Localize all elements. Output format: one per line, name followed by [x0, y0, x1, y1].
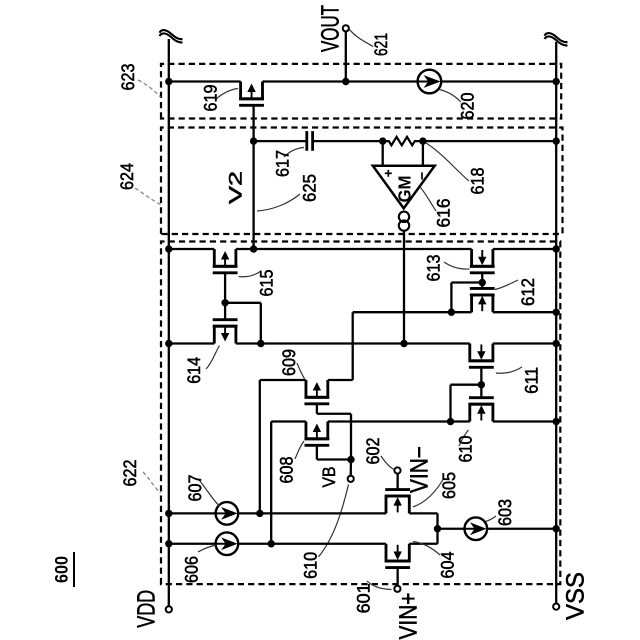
leader 616 [420, 187, 437, 212]
wire gates 610-611 up [451, 384, 482, 386]
label 616 [434, 199, 454, 228]
leader 610 (VB input) [318, 485, 348, 557]
svg-text:VOUT: VOUT [317, 5, 345, 52]
wire node V2 horizontal [252, 141, 254, 249]
leader 607 [199, 480, 220, 506]
label 607 [185, 475, 205, 502]
svg-text:601: 601 [354, 583, 374, 613]
leader 613 [444, 262, 470, 269]
terminal VB [348, 476, 354, 482]
label 614 [184, 357, 204, 384]
junction GM- input node [419, 137, 426, 144]
wire M604 to corner [409, 543, 437, 545]
svg-text:613: 613 [424, 255, 444, 282]
junction L2-VSS [553, 137, 560, 144]
wire gate 614 lead [224, 303, 226, 320]
wire M610 to VSS [493, 420, 556, 422]
wire 619 gate lead [252, 105, 254, 141]
wire GM output to L4 [403, 231, 405, 344]
leader 618 [426, 143, 469, 181]
wire VB lead [350, 460, 353, 476]
leader 612 [495, 280, 518, 290]
wire L7 down to M608 [271, 420, 306, 422]
leader 605 [413, 478, 444, 507]
label VIN+ [395, 593, 423, 640]
junction input-pair tail node [434, 525, 441, 532]
wire GM- node to VSS [423, 140, 556, 142]
current source 620 [418, 70, 442, 94]
svg-text:622: 622 [120, 460, 140, 487]
junction L4-VSS [553, 340, 560, 347]
svg-text:621: 621 [371, 33, 391, 56]
svg-text:614: 614 [184, 357, 204, 384]
svg-text:VIN−: VIN− [406, 446, 434, 493]
GM output circles [399, 212, 409, 231]
svg-text:VB: VB [319, 467, 339, 488]
label 608 [276, 457, 296, 484]
wire 609 drain vertical [328, 379, 353, 381]
wire 609 source vertical [260, 379, 306, 381]
svg-text:612: 612 [518, 278, 538, 306]
wire 603 to VSS [487, 528, 556, 530]
svg-text:GM: GM [395, 176, 415, 203]
wire gate 608 lead [316, 445, 318, 459]
current source 606 [216, 532, 239, 555]
leader 602 [381, 456, 394, 470]
current source 607 [216, 502, 239, 525]
svg-text:625: 625 [300, 174, 320, 202]
svg-text:610: 610 [456, 436, 476, 463]
leader 606 [198, 545, 217, 552]
wire VDD to M614 [169, 342, 215, 344]
wire 607 to M605 [238, 512, 386, 514]
wire 606 node to L7 [270, 422, 272, 544]
label 610 [456, 436, 476, 463]
wire M605 to corner [409, 512, 437, 514]
wire GM - input lead [422, 141, 424, 166]
leader 617 [284, 148, 304, 158]
transistor 610 [469, 398, 494, 422]
wire gate net down [225, 302, 261, 304]
wire M619 drain to VOUT node [263, 80, 346, 82]
leader 621 [350, 30, 374, 47]
junction L1-VSS [553, 78, 560, 85]
junction L5 gate-net [448, 309, 455, 316]
label 615 [257, 270, 277, 297]
label 612 [518, 278, 538, 306]
label VB [319, 467, 339, 488]
leader 609 [297, 363, 305, 379]
wire M614 to M611 [236, 342, 470, 344]
terminal VOUT [343, 25, 349, 31]
svg-text:624: 624 [117, 163, 137, 190]
junction L7 gate-net [447, 418, 454, 425]
svg-text:V2: V2 [226, 171, 246, 204]
wire 609 drain horizontal [352, 312, 354, 380]
label 605 [439, 472, 459, 499]
wire gate 608 down to VB node [317, 458, 351, 460]
junction L3-VSS [553, 245, 560, 252]
svg-text:603: 603 [495, 499, 515, 526]
svg-text:609: 609 [279, 349, 299, 376]
leader 604 [413, 542, 440, 556]
current source 603 [465, 517, 488, 540]
label 625 [300, 174, 320, 202]
svg-text:606: 606 [181, 556, 201, 583]
leader 620 [439, 90, 461, 103]
junction V2-L3 [250, 245, 257, 252]
wire VOUT stub [345, 31, 347, 81]
wire M611 to VSS [493, 342, 556, 344]
op-amp GM 616 [373, 166, 435, 209]
svg-text:617: 617 [273, 150, 293, 177]
transistor 605 [385, 490, 410, 514]
wire 607 node to 609 source [259, 380, 261, 513]
leader 625 [257, 194, 300, 211]
svg-text:VIN+: VIN+ [395, 593, 423, 640]
label 621 [371, 33, 391, 56]
leader 619 [216, 89, 238, 100]
leader 610 [459, 430, 469, 446]
wire gate 613 lead [481, 273, 483, 283]
break mark on VDD rail [160, 30, 183, 42]
transistor 613 [470, 249, 495, 273]
junction 606 node [268, 540, 275, 547]
wire gate 609 to VB node [350, 414, 352, 460]
wire L7 to M610 [451, 420, 470, 422]
wire gate 609 lead [316, 404, 318, 414]
wire GM + input lead [382, 141, 384, 166]
junction L3-VDD [165, 245, 172, 252]
junction L4 GM output [400, 340, 407, 347]
label 619 [201, 85, 221, 112]
junction GM+ input node [379, 137, 386, 144]
label 620 [458, 93, 478, 120]
leader 611 [496, 367, 522, 373]
label 604 [438, 552, 458, 579]
junction gates 612-613 [479, 279, 486, 286]
wire gate net to L4 [260, 303, 262, 344]
wire VDD to 606 [169, 543, 216, 545]
wire M608 to gate-net junction [328, 420, 451, 422]
junction 603-VSS [553, 525, 560, 532]
wire VDD to M619 source [169, 80, 241, 82]
junction VB node [347, 456, 354, 463]
svg-text:607: 607 [185, 475, 205, 502]
label 606 [181, 556, 201, 583]
label 624 [117, 163, 137, 190]
leader 623 [138, 80, 161, 97]
label 601 [354, 583, 374, 613]
wire M612 to VSS [493, 311, 556, 313]
junction gates 610-611 [478, 381, 485, 388]
wire M604 corner to tail node [436, 529, 438, 544]
wire VSS rail [555, 42, 557, 606]
wire M613 to VSS [493, 248, 556, 250]
wire capacitor 617 to GM+ node [313, 140, 383, 142]
wire gate 610 lead [480, 385, 482, 398]
transistor 615 [213, 249, 238, 273]
label 610 (VB input) [301, 552, 321, 579]
junction L8-VDD [165, 510, 172, 517]
transistor 614 [213, 320, 238, 344]
label VDD [133, 590, 161, 628]
label 613 [424, 255, 444, 282]
label 618 [468, 168, 488, 195]
wire M615 to M613 [236, 248, 472, 250]
transistor 604 [385, 544, 410, 568]
label V2 [226, 171, 246, 204]
wire VDD rail [168, 39, 170, 609]
label 622 [120, 460, 140, 487]
svg-text:608: 608 [276, 457, 296, 484]
resistor 618 [383, 137, 423, 145]
wire 606 to M604 [238, 543, 386, 545]
wire VDD to 607 [169, 512, 216, 514]
wire gates 612-613 up [451, 281, 482, 283]
wire L5 down to gate-net junction [353, 311, 452, 313]
svg-text:623: 623 [118, 64, 138, 91]
transistor 611 [469, 344, 494, 368]
wire gate 604 to VIN+ [396, 568, 398, 586]
leader 622 [143, 472, 161, 493]
junction gates 614-615 [221, 299, 228, 306]
svg-text:602: 602 [363, 438, 383, 465]
junction L4-VDD [165, 340, 172, 347]
transistor 609 [304, 380, 329, 404]
terminal VSS [553, 604, 559, 610]
svg-text:615: 615 [257, 270, 277, 297]
capacitor 617 [307, 131, 313, 151]
wire gate 605 to VIN- [396, 473, 398, 489]
wire gate 609 down [317, 413, 351, 415]
svg-text:618: 618 [468, 168, 488, 195]
wire VDD to M615 [169, 248, 215, 250]
wire gate 611 lead [480, 367, 482, 384]
svg-text:VSS: VSS [562, 572, 590, 620]
svg-text:604: 604 [438, 552, 458, 579]
wire L2 V2 node to capacitor 617 [254, 140, 306, 142]
svg-text:616: 616 [434, 199, 454, 228]
terminal VDD [166, 606, 172, 612]
leader 624 [135, 188, 161, 205]
svg-text:VDD: VDD [133, 590, 161, 628]
label VOUT [317, 5, 345, 52]
wire VOUT node to current source 620 [346, 80, 418, 82]
junction L5-VSS [553, 309, 560, 316]
svg-text:605: 605 [439, 472, 459, 499]
wire gates 614-615 tie [224, 273, 226, 303]
svg-text:610: 610 [301, 552, 321, 579]
label 602 [363, 438, 383, 465]
label 623 [118, 64, 138, 91]
wire gate 612 lead [481, 283, 483, 289]
leader 614 [206, 346, 220, 370]
junction L1-VDD [165, 78, 172, 85]
svg-text:611: 611 [522, 367, 542, 394]
transistor 619 [239, 82, 264, 106]
terminal VIN- [394, 467, 400, 473]
wire current source 620 to VSS [441, 80, 557, 82]
leader 608 [295, 441, 304, 459]
dashed box 622 (input stage) [161, 242, 560, 585]
label 603 [495, 499, 515, 526]
wire gates 610-611 to L7 [449, 385, 451, 422]
leader 603 [486, 516, 497, 522]
junction 607-605 node [256, 510, 263, 517]
terminal VIN+ [394, 586, 400, 592]
junction L4 gate-net [257, 340, 264, 347]
transistor 608 [304, 422, 329, 446]
svg-text:619: 619 [201, 85, 221, 112]
label VIN- [406, 446, 434, 493]
wire gates 612-613 to L5 [450, 283, 452, 313]
label VSS [562, 572, 590, 620]
leader 601 [367, 581, 392, 590]
dashed box 624 (compensation stage) [161, 128, 563, 235]
transistor 612 [470, 288, 495, 312]
wire L5 to M612 [451, 311, 471, 313]
svg-text:620: 620 [458, 93, 478, 120]
wire M605 corner to tail node [436, 513, 438, 528]
label 617 [273, 150, 293, 177]
junction VOUT node [342, 78, 349, 85]
figure number 600 [52, 552, 75, 587]
break mark on VSS rail [545, 33, 568, 45]
label 611 [522, 367, 542, 394]
svg-text:600: 600 [52, 556, 72, 583]
label 609 [279, 349, 299, 376]
dashed box 623 (output stage) [161, 64, 561, 119]
junction V2-L2 [250, 137, 257, 144]
leader 615 [239, 271, 262, 277]
junction L7-VSS [553, 418, 560, 425]
wire tail node to 603 [438, 528, 465, 530]
junction L9-VDD [165, 540, 172, 547]
